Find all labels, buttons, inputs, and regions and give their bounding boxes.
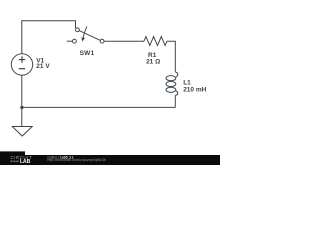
SW1 right throw terminal circle <box>100 39 104 43</box>
SW1 pivot terminal circle <box>76 28 80 32</box>
wire from V1 top up left side and along top rail to switch <box>22 21 76 54</box>
SW1 left throw terminal circle <box>73 39 77 43</box>
wire from R1 right end down right side to inductor <box>167 41 175 72</box>
resistor R1 <box>144 37 167 46</box>
svg-text:L1: L1 <box>183 80 191 87</box>
wire bottom rail from junction to inductor branch <box>22 106 176 108</box>
svg-text:SW1: SW1 <box>80 50 95 57</box>
footer logo tab <box>0 151 25 165</box>
wire from switch right throw to resistor R1 <box>104 40 144 42</box>
svg-text:http://circuitlab.com/c/pozep/: http://circuitlab.com/c/pozep/lqf5c3b <box>47 158 106 162</box>
wire ground stub below junction <box>21 107 23 126</box>
svg-text:210 mH: 210 mH <box>183 87 206 94</box>
wire from V1 bottom down to ground junction <box>21 75 23 107</box>
V1 value labels <box>36 57 50 70</box>
ground <box>12 127 32 137</box>
L1 labels <box>183 80 206 94</box>
inductor L1 <box>166 72 178 95</box>
svg-text:21 V: 21 V <box>36 63 50 70</box>
voltage source V1 <box>11 54 32 75</box>
R1 labels <box>146 52 160 66</box>
svg-text:21 Ω: 21 Ω <box>146 59 160 66</box>
wire from inductor bottom to bottom rail corner <box>174 95 176 107</box>
switch SW1 <box>73 28 105 43</box>
wire left throw open stub of SW1 <box>67 40 73 42</box>
SW1 blade <box>79 31 100 41</box>
svg-text:LAB: LAB <box>20 159 31 165</box>
node junction at V1 bottom / ground <box>20 106 23 109</box>
SW1 actuation arrow <box>83 27 87 38</box>
footer bar <box>0 155 220 165</box>
